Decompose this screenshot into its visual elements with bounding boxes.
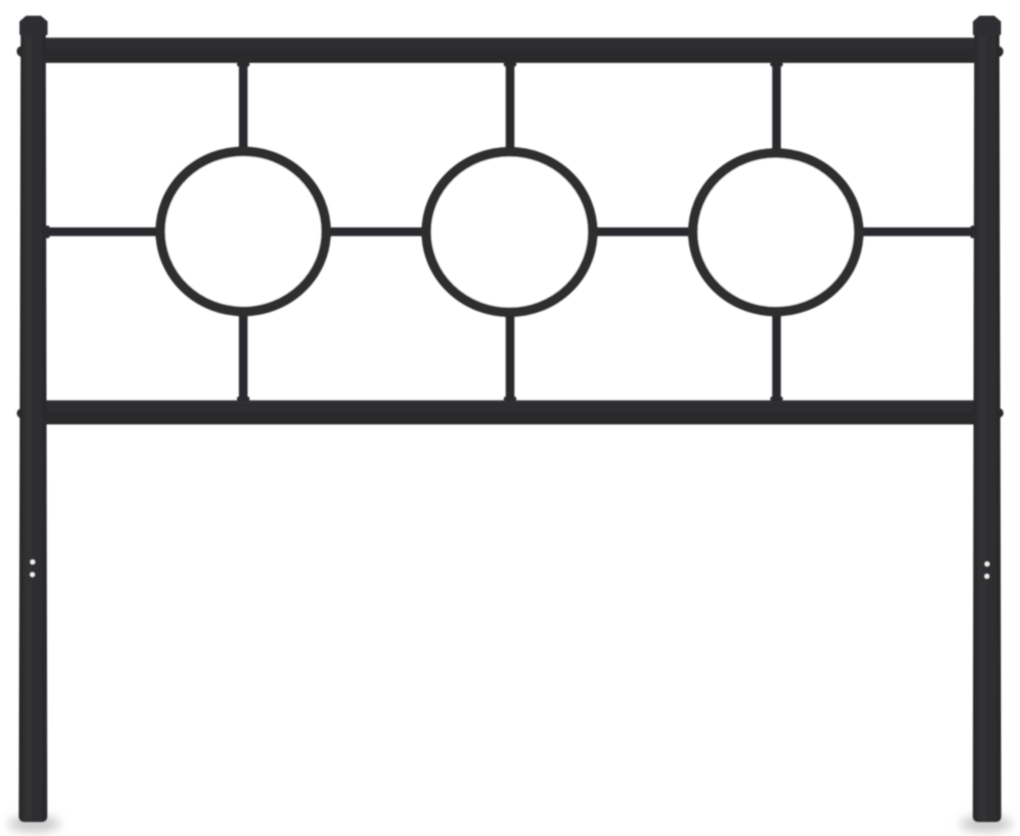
left post xyxy=(19,24,48,822)
fillet vertical bar 2 top xyxy=(504,63,517,67)
fillet vertical bar 1 bottom xyxy=(237,397,250,401)
right post xyxy=(973,24,1001,822)
fillet middle rail at left post xyxy=(45,226,49,239)
middle rail xyxy=(44,227,976,236)
bolt head bottom-left xyxy=(17,409,26,419)
fillet vertical bar 1 at circle 1 top xyxy=(237,147,250,151)
fillet vertical bar 1 at circle 1 bottom xyxy=(237,312,250,316)
bolt head top-left xyxy=(17,46,27,57)
left post cap xyxy=(20,16,48,36)
fillet middle rail at circle 1 right xyxy=(326,226,331,239)
fillet vertical bar 3 bottom xyxy=(770,397,783,401)
fillet middle rail at circle 3 right xyxy=(859,226,864,239)
screw hole right leg lower xyxy=(985,574,990,579)
fillet vertical bar 2 at circle 2 bottom xyxy=(504,313,517,317)
fillet middle rail at circle 1 left xyxy=(156,226,161,239)
fillet middle rail at circle 2 right xyxy=(593,226,598,239)
fillet vertical bar 3 at circle 3 bottom xyxy=(770,312,783,316)
bottom rail xyxy=(44,400,976,424)
vertical bar 2 xyxy=(506,62,515,401)
bolt head top-right xyxy=(994,46,1004,57)
screw hole left leg lower xyxy=(30,572,35,577)
fillet vertical bar 2 at circle 2 top xyxy=(504,147,517,151)
top rail xyxy=(44,38,976,63)
ring circle 2 xyxy=(426,152,592,312)
floor shadow under left leg xyxy=(8,816,60,832)
fillet vertical bar 2 bottom xyxy=(504,397,517,401)
ring circle 3 xyxy=(693,153,859,311)
fillet middle rail at right post xyxy=(970,226,974,239)
fillet middle rail at circle 2 left xyxy=(422,226,427,239)
vertical bar 3 xyxy=(772,62,781,401)
screw hole left leg upper xyxy=(30,560,35,565)
bolt head bottom-right xyxy=(994,408,1003,418)
fillet vertical bar 3 top xyxy=(770,63,783,67)
fillet middle rail at circle 3 left xyxy=(688,226,693,239)
right post cap xyxy=(973,16,1001,36)
fillet vertical bar 1 top xyxy=(237,63,250,67)
screw hole right leg upper xyxy=(985,562,990,567)
vertical bar 1 xyxy=(239,62,248,401)
floor shadow under right leg xyxy=(960,816,1012,832)
ring circle 1 xyxy=(160,151,326,311)
fillet vertical bar 3 at circle 3 top xyxy=(770,148,783,152)
